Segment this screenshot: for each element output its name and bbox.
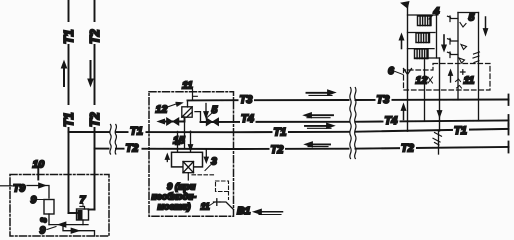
wire regulator to T3 [187, 100, 189, 107]
svg-text:5: 5 [469, 12, 475, 24]
flow arrow up on T1 riser [61, 61, 66, 86]
svg-text:необходи-: необходи- [152, 192, 197, 202]
return jog to T2 with tick marks [433, 131, 442, 154]
riser top loop [458, 12, 479, 14]
svg-text:9: 9 [40, 225, 46, 237]
heat exchanger U3 (stage II shell) [172, 152, 203, 167]
dashed line (optional equipment boundary top) [192, 174, 216, 176]
svg-text:11: 11 [201, 202, 210, 212]
pipe break symbol (right, on all four mains) [350, 87, 357, 159]
flow arrow down on T2 riser [88, 61, 93, 86]
svg-text:T4: T4 [385, 115, 398, 127]
cold water line B1 with left arrow [253, 209, 283, 215]
label T2 (left segment) [125, 143, 142, 155]
svg-text:T9: T9 [13, 183, 25, 195]
wire T3 horizontal main [188, 99, 509, 102]
dashed wire down from optional box [228, 192, 230, 200]
pipe break symbol (left, on T1/T2) [110, 124, 117, 154]
svg-text:12: 12 [416, 75, 428, 87]
wire mixing bridge left (arrow up) [175, 132, 180, 153]
wire T1 riser into elevator [69, 212, 77, 214]
label T1 (right segment) [453, 124, 469, 137]
label T2 (right segment) [400, 142, 416, 155]
wire mixing bridge right (arrow down) [188, 131, 193, 152]
line end tick T1 [508, 124, 510, 135]
svg-text:11: 11 [464, 75, 475, 87]
svg-text:T2: T2 [271, 144, 284, 156]
DHW tap riser (component 5) [457, 13, 459, 100]
svg-text:мости): мости) [158, 201, 191, 211]
wire T9 to heater with right arrow [27, 183, 49, 198]
line end tick T3 [508, 95, 510, 106]
wire T4 horizontal main [201, 120, 509, 122]
label T1 (middle segment) [273, 126, 289, 138]
flow flag arrow at riser top [401, 2, 409, 9]
flow arrow right above T3 [307, 90, 336, 96]
wire T2 horizontal main [95, 147, 509, 149]
label T4 (middle segment) [240, 113, 256, 125]
wire heater down leg [48, 214, 50, 225]
flow arrow left above T2 [305, 142, 331, 147]
wire below exchanger [187, 173, 189, 180]
svg-text:T1: T1 [274, 127, 287, 139]
wire regulator leg to T1/T2 [184, 122, 186, 148]
label T3 (middle segment) [239, 94, 255, 107]
DHW circulation riser [478, 13, 480, 121]
line end tick T2 [508, 142, 510, 153]
wire service entry tick 10 [37, 169, 39, 180]
sensor line 11 into T3 [193, 90, 198, 101]
floor branch 1 [408, 14, 437, 16]
flow arrow down (building return) [442, 35, 447, 52]
svg-text:T2: T2 [88, 29, 102, 44]
CTP box (central heat point, dash-dot border) [149, 92, 234, 217]
svg-text:T2: T2 [126, 143, 139, 155]
svg-text:T2: T2 [88, 112, 102, 127]
flow arrow up at sensor 11 [448, 70, 453, 83]
floor branch 3 [408, 48, 435, 50]
label T3 (right segment) [376, 93, 392, 106]
wire under heater with left arrow [49, 222, 88, 227]
svg-text:T1: T1 [454, 125, 467, 137]
elevator U7 [77, 207, 89, 221]
regulator U12 box [182, 107, 192, 117]
svg-text:6: 6 [388, 65, 394, 77]
arrow down right of exchanger [204, 150, 209, 163]
ITP dashed box (right building heat entry) [404, 64, 491, 91]
label T1 (left segment) [129, 126, 146, 138]
svg-text:5: 5 [212, 104, 218, 116]
sensor cross mark [461, 70, 466, 75]
dashed optional pump box 11 [216, 181, 229, 192]
flow arrow down beside riser [483, 17, 488, 36]
riser compensator squiggles [473, 52, 480, 63]
svg-text:T4: T4 [241, 113, 254, 125]
tap (upper floor) [448, 16, 467, 27]
heat exchanger U3 lower section box with cross [183, 162, 194, 173]
wire T4 takeoff jog [195, 112, 201, 122]
sensor squiggles [456, 79, 462, 88]
riser bottom header [415, 57, 440, 59]
wire T9 entry [0, 185, 12, 187]
heating return drop to mains [439, 58, 441, 131]
svg-text:3: 3 [211, 156, 217, 168]
inlet valve symbol in ITP [404, 69, 412, 91]
wire T1 horizontal main [69, 129, 509, 132]
building box (bottom-left consumer, dash-dot) [10, 175, 109, 237]
svg-text:T2: T2 [401, 142, 414, 154]
flow arrow down onto T4 branch [204, 104, 209, 119]
svg-text:11: 11 [182, 80, 193, 92]
svg-text:T1: T1 [130, 126, 143, 138]
return drop upper [436, 15, 438, 58]
flow arrow down on return drop [437, 111, 442, 118]
wire T1 main riser (left vertical) [68, 0, 70, 213]
flow arrow left above T4 [304, 113, 334, 118]
wire elevator outlet with right arrow [63, 225, 95, 236]
floor branch 2 [408, 32, 436, 34]
label T2 (middle segment) [270, 144, 286, 156]
radiator (middle floor) [416, 33, 430, 43]
label T4 (right segment) [384, 114, 400, 127]
svg-text:12: 12 [156, 104, 168, 116]
tap (lower floor) [448, 52, 465, 63]
svg-text:T3: T3 [240, 94, 253, 106]
arrow up left of exchanger [165, 154, 170, 162]
radiator (lower floor) [415, 49, 429, 59]
water heater U9 [44, 200, 54, 215]
wire T2 riser into elevator [89, 209, 95, 211]
wire T2 return riser (left vertical) [94, 0, 96, 210]
flow arrow up (building supply) [399, 34, 404, 49]
label 15 [173, 134, 185, 147]
svg-text:9: 9 [31, 194, 37, 206]
valve V13 (bowtie) with left flow arrow [158, 117, 185, 125]
tap (middle floor) [448, 39, 467, 50]
svg-text:T1: T1 [62, 112, 76, 127]
line end tick T4 [508, 115, 510, 126]
wire cold water outlet to B1 [220, 202, 234, 210]
junction cross node [214, 199, 221, 206]
flow arrow right above T1 [305, 123, 335, 128]
right building: heating supply riser [407, 4, 409, 131]
wire elevator bottom drop [82, 220, 84, 225]
svg-text:8: 8 [39, 218, 49, 223]
svg-text:B1: B1 [237, 205, 251, 217]
valve on T4 line (bowtie) [206, 118, 218, 126]
radiator (top floor) [418, 16, 432, 26]
svg-text:T3: T3 [377, 94, 390, 106]
flow arrow up into building on supply drop [401, 104, 406, 120]
heater connection drop in building [424, 58, 426, 120]
svg-text:T1: T1 [62, 29, 76, 44]
